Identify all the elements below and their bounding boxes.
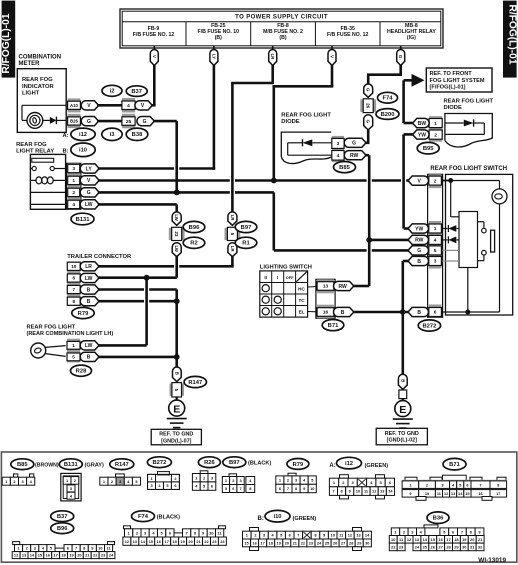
switch internal diode YW xyxy=(442,228,448,230)
svg-text:17: 17 xyxy=(53,553,57,558)
svg-text:LW: LW xyxy=(174,245,179,252)
switch internal bottom wire xyxy=(467,268,469,313)
svg-text:i12: i12 xyxy=(79,132,87,138)
svg-text:17: 17 xyxy=(260,541,264,546)
oval R147 xyxy=(184,376,206,387)
svg-text:B272: B272 xyxy=(422,323,436,329)
svg-text:5: 5 xyxy=(434,248,437,254)
svg-text:1: 1 xyxy=(434,121,437,127)
svg-text:REAR FOG: REAR FOG xyxy=(22,77,53,83)
svg-text:17: 17 xyxy=(165,539,169,544)
left ground symbol E xyxy=(176,397,178,401)
svg-text:3: 3 xyxy=(72,166,75,172)
legend connector R79 xyxy=(288,473,296,476)
svg-text:LR: LR xyxy=(230,215,235,222)
legend oval R79 xyxy=(287,459,309,470)
svg-text:B131: B131 xyxy=(76,217,91,223)
svg-text:B: B xyxy=(174,372,179,375)
svg-text:RW: RW xyxy=(350,153,359,159)
oval R2 xyxy=(183,237,205,248)
svg-text:(B): (B) xyxy=(215,35,222,41)
svg-text:13: 13 xyxy=(323,284,329,290)
svg-text:B: B xyxy=(341,310,345,316)
rear fog light connector strip xyxy=(67,339,80,353)
arrow to front fog light system xyxy=(412,74,425,87)
oval i10 xyxy=(71,143,95,157)
wire meter B26 to in-line pin 25 xyxy=(97,120,122,123)
svg-text:E: E xyxy=(399,404,406,416)
oval B200 xyxy=(376,109,399,120)
wire color pill B at trailer pin 8 xyxy=(80,297,99,306)
legend oval R26 xyxy=(198,457,220,468)
svg-text:WI-13019: WI-13019 xyxy=(478,557,506,564)
svg-text:B272: B272 xyxy=(152,460,166,466)
svg-text:10: 10 xyxy=(425,491,429,496)
wire B lighting switch 16 to switch pin 6 xyxy=(354,311,409,314)
svg-text:B96: B96 xyxy=(189,225,200,231)
oval i12 xyxy=(71,128,95,140)
svg-text:LR: LR xyxy=(85,264,92,270)
svg-text:2: 2 xyxy=(72,190,75,196)
wire V from FB-9 to meter pin 4 xyxy=(153,65,156,105)
svg-text:1: 1 xyxy=(434,226,437,232)
svg-text:B96: B96 xyxy=(57,526,68,532)
wire color pill B at lighting switch xyxy=(334,307,354,316)
svg-text:B: B xyxy=(87,355,91,361)
wire G from MB-8 to in-line 26 xyxy=(399,65,402,75)
oval i2 xyxy=(102,85,122,96)
svg-text:7: 7 xyxy=(186,531,188,536)
svg-text:17: 17 xyxy=(446,537,450,542)
ref to front fog light system box xyxy=(426,68,492,92)
wire B trailer pin 7 to pin 8 xyxy=(98,288,144,291)
svg-text:20: 20 xyxy=(285,541,289,546)
wire color pill G at meter xyxy=(81,117,98,126)
junction V row xyxy=(271,178,277,184)
wire color pill LR at trailer xyxy=(80,262,99,271)
svg-text:7: 7 xyxy=(75,546,77,551)
svg-text:(BLACK): (BLACK) xyxy=(157,515,180,521)
svg-text:LW: LW xyxy=(85,343,93,349)
legend oval B96 xyxy=(51,523,74,534)
svg-text:i10: i10 xyxy=(79,148,87,154)
relay coil xyxy=(36,177,42,184)
svg-text:10: 10 xyxy=(356,489,360,494)
svg-text:LIGHT: LIGHT xyxy=(22,90,40,96)
switch internal diode RW xyxy=(442,239,448,241)
svg-text:B:: B: xyxy=(63,149,69,155)
svg-text:YW: YW xyxy=(415,226,423,232)
svg-text:6: 6 xyxy=(434,310,437,316)
svg-text:REAR FOG LIGHT SWITCH: REAR FOG LIGHT SWITCH xyxy=(430,166,507,172)
rear fog light lamp xyxy=(31,343,46,358)
wire color pill G at switch xyxy=(408,246,429,255)
indicator diode xyxy=(50,117,57,124)
legend connector R147 xyxy=(116,474,125,477)
svg-text:I: I xyxy=(277,275,278,280)
svg-text:27: 27 xyxy=(341,541,345,546)
svg-text:10: 10 xyxy=(310,486,314,491)
junction LW branch xyxy=(144,275,150,281)
legend connector i10 xyxy=(250,528,259,532)
left ground in-line connector R147 xyxy=(173,367,182,382)
svg-text:REAR FOG LIGHT: REAR FOG LIGHT xyxy=(281,113,331,119)
legend oval B37 xyxy=(51,511,74,522)
svg-text:B36: B36 xyxy=(433,516,444,522)
wire G in-line 26 to rear fog diode pin 3 xyxy=(367,130,370,143)
relay internal line pin4 xyxy=(30,203,66,205)
svg-text:LY: LY xyxy=(86,166,93,172)
switch connector strip xyxy=(428,174,443,317)
svg-text:B200: B200 xyxy=(381,112,395,118)
svg-text:V: V xyxy=(330,55,335,58)
svg-text:R79: R79 xyxy=(78,311,89,317)
svg-text:B95: B95 xyxy=(423,146,434,152)
svg-text:REAR FOG LIGHT: REAR FOG LIGHT xyxy=(444,99,494,105)
svg-text:DIODE: DIODE xyxy=(444,105,462,111)
svg-text:(BLACK): (BLACK) xyxy=(248,461,271,467)
svg-text:R/FOG(L)-01: R/FOG(L)-01 xyxy=(1,13,12,73)
junction B at rear fog light pin 5 xyxy=(174,354,180,360)
svg-text:LR: LR xyxy=(270,54,275,61)
wire color pill YW at diode right xyxy=(413,130,430,139)
svg-text:INDICATOR: INDICATOR xyxy=(22,84,54,90)
svg-text:17: 17 xyxy=(496,491,500,496)
wire LW below in-line 23 to trailer pin 6 xyxy=(175,257,178,278)
svg-text:20: 20 xyxy=(470,537,474,542)
svg-text:8: 8 xyxy=(73,299,76,304)
rear fog light diode box right xyxy=(445,114,492,148)
legend oval B272 xyxy=(147,457,171,468)
wire color pill LW at trailer xyxy=(80,273,99,282)
wire V row relay pin 1 to switch pin 2 xyxy=(98,179,230,182)
switch internal wire to lamp xyxy=(451,180,500,182)
combination meter connector strip xyxy=(68,98,81,112)
svg-text:5: 5 xyxy=(72,355,75,360)
svg-text:B: B xyxy=(417,259,421,265)
right ground in-line connector xyxy=(398,374,407,389)
svg-text:REF. TO FRONT: REF. TO FRONT xyxy=(430,71,473,77)
svg-text:6: 6 xyxy=(73,276,76,281)
svg-text:4: 4 xyxy=(72,202,75,208)
svg-text:R147: R147 xyxy=(115,462,129,468)
svg-text:G: G xyxy=(417,248,421,254)
wire color pill V at relay xyxy=(80,176,99,185)
power tail wire label V xyxy=(331,46,333,51)
svg-text:(GRAY): (GRAY) xyxy=(85,463,105,469)
indicator lamp bulb xyxy=(27,113,43,129)
svg-text:REF. TO GND: REF. TO GND xyxy=(385,431,419,437)
svg-text:II: II xyxy=(264,275,267,280)
wire B switch pin 3 down to ground xyxy=(403,260,409,263)
svg-text:i2: i2 xyxy=(110,89,115,95)
switch internal V node xyxy=(442,180,451,182)
diode left connector strip xyxy=(332,136,344,152)
svg-text:30: 30 xyxy=(462,545,466,550)
svg-text:RW: RW xyxy=(338,284,347,290)
svg-text:B: B xyxy=(87,287,91,293)
svg-text:i10: i10 xyxy=(273,514,281,520)
oval B95 xyxy=(417,142,439,154)
rear fog light relay box xyxy=(30,154,65,209)
svg-text:TRAILER CONNECTOR: TRAILER CONNECTOR xyxy=(67,254,132,260)
wire meter A10 to in-line pin 4 xyxy=(97,104,122,107)
svg-text:5: 5 xyxy=(230,233,235,236)
wire B down to right ground connector xyxy=(401,312,404,375)
svg-text:23: 23 xyxy=(174,231,179,237)
svg-text:27: 27 xyxy=(438,545,442,550)
svg-text:R26: R26 xyxy=(204,460,215,466)
switch lamp xyxy=(492,189,507,204)
svg-text:OFF: OFF xyxy=(286,276,294,280)
wire color pill RW at diode left xyxy=(344,151,366,160)
wire color pill RW at lighting switch xyxy=(334,281,354,290)
wire color pill LW at rear fog light xyxy=(80,341,99,350)
oval B96 xyxy=(183,221,205,232)
svg-text:(GREEN): (GREEN) xyxy=(293,516,317,522)
svg-text:4: 4 xyxy=(127,103,130,109)
svg-text:LW: LW xyxy=(174,214,179,221)
svg-text:10: 10 xyxy=(209,531,213,536)
oval i3 xyxy=(102,128,122,140)
svg-text:B85: B85 xyxy=(17,462,28,468)
svg-text:B38: B38 xyxy=(132,132,143,138)
power supply circuit box xyxy=(120,9,443,48)
svg-text:G: G xyxy=(87,190,91,196)
svg-text:F/B FUSE NO. 12: F/B FUSE NO. 12 xyxy=(133,32,175,38)
svg-text:B71: B71 xyxy=(328,323,339,329)
wire color pill G at relay xyxy=(80,188,99,197)
svg-text:LW: LW xyxy=(85,276,93,282)
svg-text:METER: METER xyxy=(19,61,41,67)
svg-text:(B): (B) xyxy=(279,35,286,41)
wire color pill RW at switch xyxy=(408,235,429,244)
wire LR below in-line connector to trailer pin 10 xyxy=(231,257,234,267)
wire color pill V after pin 4 xyxy=(135,101,152,110)
wire color pill B at switch pin 6 xyxy=(408,307,428,316)
wire color pill B at trailer pin 7 xyxy=(80,285,99,294)
svg-text:(GREEN): (GREEN) xyxy=(365,463,389,469)
svg-text:FOG LIGHT SYSTEM: FOG LIGHT SYSTEM xyxy=(430,78,485,84)
svg-text:7: 7 xyxy=(73,287,76,292)
svg-text:[GND(L)-07]: [GND(L)-07] xyxy=(161,438,191,444)
legend oval F74 (BLACK) xyxy=(132,511,155,522)
power tail wire label LR xyxy=(272,46,274,51)
svg-text:4: 4 xyxy=(337,153,340,159)
svg-text:DIODE: DIODE xyxy=(281,119,299,125)
relay armature bar xyxy=(32,158,54,162)
power tail wire label LY xyxy=(213,46,215,51)
svg-text:i3: i3 xyxy=(110,132,116,138)
svg-text:B97: B97 xyxy=(229,460,240,466)
svg-text:B:: B: xyxy=(258,516,264,522)
svg-text:B37: B37 xyxy=(57,514,68,520)
svg-text:TO POWER SUPPLY CIRCUIT: TO POWER SUPPLY CIRCUIT xyxy=(235,15,328,21)
oval R1 xyxy=(235,237,257,248)
legend connector B272 xyxy=(158,472,170,475)
svg-text:F74: F74 xyxy=(138,514,149,520)
svg-text:R28: R28 xyxy=(76,369,87,375)
legend connector B85 xyxy=(14,474,18,477)
svg-text:R/FOG(L)-01: R/FOG(L)-01 xyxy=(507,5,518,65)
in-line connector 26 (F74/B200) xyxy=(364,84,373,97)
wire B down to rear fog light B row xyxy=(175,301,178,357)
wire color pill V at switch xyxy=(408,176,429,185)
svg-text:7: 7 xyxy=(297,533,299,538)
svg-text:2: 2 xyxy=(434,132,437,138)
svg-text:BW: BW xyxy=(418,121,427,127)
connector legend frame xyxy=(1,452,516,562)
right ground symbol E xyxy=(402,399,404,401)
legend connector B131 xyxy=(61,473,81,501)
oval B97 xyxy=(235,221,257,232)
svg-text:26: 26 xyxy=(366,103,371,109)
wire color pill G after pin 25 xyxy=(137,117,154,126)
svg-text:7: 7 xyxy=(287,486,289,491)
oval B85 xyxy=(334,162,356,173)
wire color pill B at rear fog light xyxy=(80,352,99,361)
switch internal gray line G xyxy=(442,249,459,251)
svg-text:B37: B37 xyxy=(131,89,142,95)
svg-text:10: 10 xyxy=(391,537,395,542)
switch internal gray line B xyxy=(442,260,459,262)
svg-text:10: 10 xyxy=(331,533,335,538)
oval F74 xyxy=(378,92,398,103)
svg-text:4: 4 xyxy=(434,238,437,244)
wire LW branch down to rear fog light pin 1 xyxy=(145,278,148,346)
trailer connector strip xyxy=(67,262,80,274)
legend connector B71 xyxy=(405,477,417,481)
relay internal line pin2 xyxy=(30,191,66,193)
svg-text:7: 7 xyxy=(332,489,334,494)
svg-text:A:: A: xyxy=(329,463,335,469)
svg-text:LIGHTING SWITCH: LIGHTING SWITCH xyxy=(260,264,312,270)
svg-text:7: 7 xyxy=(461,529,463,534)
wire V from FB-35 to V row junction xyxy=(331,65,334,86)
svg-text:(BROWN): (BROWN) xyxy=(35,463,59,469)
svg-text:B131: B131 xyxy=(64,462,79,468)
junction G at relay pin 2 xyxy=(174,190,180,196)
wire color pill BW at diode right xyxy=(413,118,430,127)
svg-text:(REAR COMBINATION LIGHT LH): (REAR COMBINATION LIGHT LH) xyxy=(27,331,114,337)
svg-text:V: V xyxy=(152,55,157,58)
wire color pill G at diode left xyxy=(344,138,366,147)
legend connector B37/B96 xyxy=(13,542,20,545)
svg-text:R2: R2 xyxy=(190,241,197,247)
legend connector B36 xyxy=(424,525,438,528)
page label right R/FOG(L)-01 xyxy=(503,1,517,78)
legend oval B36 xyxy=(427,512,449,524)
diode symbol right xyxy=(445,122,464,124)
lighting switch connection lines xyxy=(308,286,317,289)
switch internal wire V to box xyxy=(450,181,452,217)
legend connector B97 xyxy=(229,474,237,477)
oval B38 xyxy=(126,128,148,140)
svg-text:7: 7 xyxy=(240,486,242,491)
svg-text:1: 1 xyxy=(72,343,75,348)
combination meter box xyxy=(17,69,66,133)
in-line connector 23 (B96/R2) xyxy=(172,212,181,225)
indicator lamp internal wiring xyxy=(22,104,66,106)
in-line connector 5 (B97/R1) xyxy=(228,212,237,225)
wire color pill V at meter xyxy=(81,101,98,110)
oval R79 xyxy=(72,307,94,318)
diode right connector strip xyxy=(429,116,442,130)
svg-text:A10: A10 xyxy=(70,103,78,108)
legend oval B131 (GRAY) xyxy=(59,459,82,470)
svg-text:i12: i12 xyxy=(345,461,353,467)
svg-text:B26: B26 xyxy=(70,119,78,124)
wire YW diode pin 2 down to switch pin 1 xyxy=(404,133,413,136)
svg-text:G: G xyxy=(87,119,91,125)
svg-text:E: E xyxy=(173,403,180,415)
svg-text:20: 20 xyxy=(188,539,192,544)
switch internal box xyxy=(459,212,478,268)
svg-text:7: 7 xyxy=(479,483,481,488)
oval B272 xyxy=(418,320,440,331)
svg-text:HC: HC xyxy=(298,287,305,292)
wire G row relay pin 2 to switch pin 5 xyxy=(98,191,230,194)
svg-text:10: 10 xyxy=(98,546,102,551)
svg-text:REF. TO GND: REF. TO GND xyxy=(159,432,193,438)
svg-text:30: 30 xyxy=(365,541,369,546)
svg-text:EL: EL xyxy=(299,310,305,315)
svg-text:10: 10 xyxy=(71,264,77,269)
svg-text:LY: LY xyxy=(211,54,216,59)
legend connector F74 xyxy=(124,526,131,529)
svg-text:16: 16 xyxy=(323,310,329,316)
svg-text:LIGHT RELAY: LIGHT RELAY xyxy=(16,149,54,155)
ref to gnd box left xyxy=(151,429,201,445)
svg-text:YW: YW xyxy=(418,132,426,138)
svg-text:20: 20 xyxy=(77,553,81,558)
svg-text:B97: B97 xyxy=(241,225,252,231)
junction RW at switch pin 4 row xyxy=(366,237,372,243)
wire color pill YW at switch xyxy=(408,224,428,233)
wire RW diode pin 4 down to lighting switch 13 xyxy=(366,154,370,157)
lighting switch table xyxy=(260,271,308,317)
svg-text:B71: B71 xyxy=(449,462,460,468)
wire color pill LY at relay xyxy=(80,164,99,173)
legend oval R147 xyxy=(110,459,134,470)
svg-text:B: B xyxy=(87,299,91,305)
svg-text:B85: B85 xyxy=(339,165,350,171)
svg-text:REAR FOG: REAR FOG xyxy=(16,142,47,148)
svg-text:3: 3 xyxy=(434,259,437,265)
svg-text:COMBINATION: COMBINATION xyxy=(19,54,62,60)
rear fog light switch box xyxy=(446,174,513,315)
svg-text:2: 2 xyxy=(434,178,437,184)
wire LW relay pin 4 down to in-line 23 xyxy=(98,203,177,206)
svg-text:REAR FOG LIGHT: REAR FOG LIGHT xyxy=(27,325,76,331)
svg-text:B: B xyxy=(417,310,421,316)
svg-text:LW: LW xyxy=(85,202,93,208)
relay contact circles xyxy=(32,166,36,170)
rear fog light diode box left xyxy=(281,132,331,163)
svg-text:R1: R1 xyxy=(242,241,250,247)
diode symbol left xyxy=(312,142,331,144)
svg-text:[GND(L)-02]: [GND(L)-02] xyxy=(387,438,417,444)
svg-text:25: 25 xyxy=(126,119,132,125)
svg-text:R147: R147 xyxy=(188,380,202,386)
svg-text:F74: F74 xyxy=(383,96,394,102)
svg-text:1: 1 xyxy=(72,178,75,184)
wire color pill B at switch pin 3 xyxy=(408,256,428,265)
wire G from meter down to relay G row xyxy=(153,120,177,123)
svg-text:[F/FOG(L)-01]: [F/FOG(L)-01] xyxy=(430,85,466,91)
svg-text:B: B xyxy=(400,379,405,382)
svg-text:A:: A: xyxy=(63,133,69,139)
